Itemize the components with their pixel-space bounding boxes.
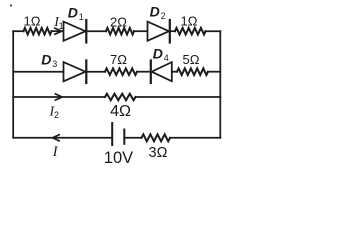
- wire right rail: [219, 31, 221, 138]
- svg-text:2: 2: [54, 110, 59, 120]
- svg-text:2: 2: [161, 11, 166, 21]
- wire top rail R2 to D2: [134, 30, 148, 32]
- wire top rail R to D1: [52, 30, 64, 32]
- current arrow I1: [55, 28, 62, 34]
- wire top rail lead-in: [13, 30, 23, 32]
- svg-text:D: D: [153, 45, 163, 61]
- svg-text:1: 1: [79, 12, 84, 22]
- wire row2 D4 to R5: [172, 71, 177, 73]
- resistor 1ohm top-right: [175, 28, 206, 35]
- resistor 2ohm: [106, 28, 134, 35]
- wire row3 left segment: [13, 96, 105, 98]
- svg-text:3Ω: 3Ω: [149, 145, 168, 161]
- svg-text:3: 3: [52, 59, 57, 69]
- svg-text:I: I: [52, 144, 59, 160]
- wire row2 R4 to D4: [137, 71, 151, 73]
- battery 10V positive plate: [111, 123, 113, 145]
- resistor 3ohm: [142, 134, 171, 141]
- stray dot: [10, 4, 12, 6]
- battery 10V negative plate: [123, 130, 125, 144]
- svg-text:4: 4: [164, 53, 169, 63]
- diode D1: [64, 22, 86, 41]
- wire bottom rail left segment: [13, 137, 112, 139]
- diode D3: [64, 62, 86, 81]
- resistor 4ohm: [105, 94, 136, 101]
- wire bottom rail R7 to right rail: [170, 137, 220, 139]
- current arrow I: [53, 135, 60, 141]
- wire top rail D1 to R2: [86, 30, 106, 32]
- wire top rail D2 to R3: [170, 30, 175, 32]
- resistor 1ohm top-left: [24, 28, 52, 35]
- svg-text:D: D: [68, 5, 78, 21]
- svg-text:1Ω: 1Ω: [24, 14, 41, 29]
- svg-text:D: D: [41, 51, 51, 67]
- svg-text:4Ω: 4Ω: [110, 103, 131, 120]
- diode D4 (points left): [152, 62, 172, 81]
- svg-text:1Ω: 1Ω: [181, 13, 198, 28]
- svg-text:10V: 10V: [104, 149, 133, 167]
- svg-text:D: D: [150, 4, 160, 20]
- svg-text:2Ω: 2Ω: [110, 14, 127, 29]
- resistor 5ohm: [177, 68, 208, 75]
- wire top rail R3 to corner: [206, 30, 221, 32]
- svg-text:7Ω: 7Ω: [110, 52, 127, 67]
- wire row2 D3 to R4: [86, 71, 105, 73]
- current arrow I2: [55, 94, 62, 100]
- wire row2 R5 to right rail: [208, 71, 220, 73]
- svg-text:5Ω: 5Ω: [183, 52, 200, 67]
- resistor 7ohm: [105, 68, 137, 75]
- diode D2: [148, 22, 170, 41]
- wire row3 right segment: [136, 96, 221, 98]
- wire row2 lead-in: [13, 71, 63, 73]
- wire bottom rail battery to R7: [124, 137, 141, 139]
- wire left rail: [12, 31, 14, 138]
